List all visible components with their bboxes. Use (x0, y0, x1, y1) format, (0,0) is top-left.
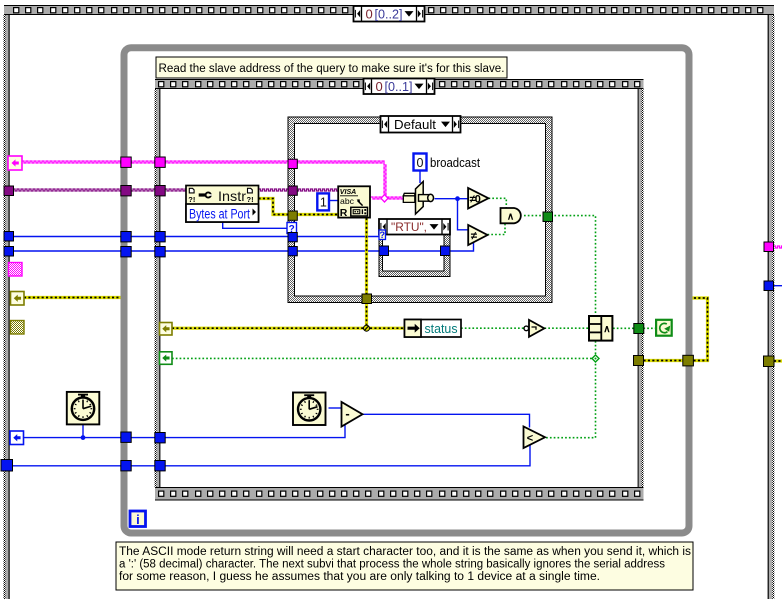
svg-text:1: 1 (320, 196, 327, 210)
svg-text:[0..1]: [0..1] (385, 79, 413, 94)
svg-text:?!: ?! (247, 195, 254, 204)
svg-text:-: - (345, 406, 349, 421)
svg-text:Instr: Instr (218, 188, 246, 204)
svg-text:R: R (340, 207, 348, 219)
svg-text:status: status (425, 321, 458, 336)
svg-text:[0..2]: [0..2] (375, 6, 403, 21)
svg-text:"RTU",: "RTU", (391, 220, 427, 234)
svg-text:Default: Default (394, 117, 436, 132)
svg-text:≠: ≠ (471, 230, 478, 242)
svg-text:0: 0 (417, 156, 424, 170)
svg-text:Read the slave address of the: Read the slave address of the query to m… (159, 63, 505, 75)
svg-text:i: i (136, 512, 140, 527)
svg-text:0: 0 (366, 6, 373, 21)
svg-text:≠0: ≠0 (470, 194, 481, 206)
svg-text:∧: ∧ (603, 324, 610, 335)
svg-text:∧: ∧ (507, 212, 514, 223)
svg-text:for some reason, I guess he as: for some reason, I guess he assumes that… (119, 571, 600, 583)
svg-text:broadcast: broadcast (430, 155, 480, 170)
svg-text:?!: ?! (188, 195, 195, 204)
svg-text:VISA: VISA (340, 187, 357, 196)
svg-text:0: 0 (376, 79, 383, 94)
svg-text:<: < (527, 433, 533, 445)
svg-text:a ':' (58 decimal) character.: a ':' (58 decimal) character. The next s… (119, 559, 665, 571)
svg-text:The ASCII mode return string w: The ASCII mode return string will need a… (119, 546, 691, 558)
svg-text:Bytes at Port: Bytes at Port (189, 206, 250, 221)
svg-text:?: ? (380, 230, 386, 240)
svg-text:abc: abc (340, 196, 355, 206)
